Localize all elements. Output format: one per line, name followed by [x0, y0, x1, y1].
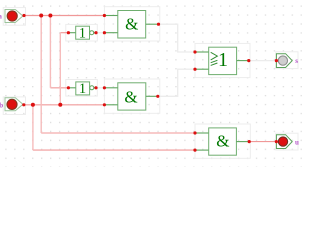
vertical wire branch B down at x=32.9 to AND U6: [32, 105, 34, 150]
svg-text:1: 1: [218, 49, 228, 71]
svg-text:1: 1: [79, 26, 86, 42]
vertical wire branch A down at x=41.2: [33, 16, 60, 151]
pin dot OR U5 in1: [193, 50, 196, 53]
wire OR U5 output to output S (value 0, gray): [249, 60, 277, 62]
bounding box AND U4: [104, 79, 159, 113]
junction on wire A at x=41.2: [39, 14, 43, 18]
pin dot AND U4 in1: [103, 86, 106, 89]
NOT gate U1: [68, 26, 96, 42]
bounding box input A: [3, 7, 298, 159]
wire branch B to AND U6 input2 (value 1, red): [33, 149, 195, 151]
wire branch to NOT U1 input (value 1, red): [60, 32, 68, 34]
pin dot AND U3 in1: [103, 14, 106, 17]
wire AND U4 output to OR U5 input2 (value 0, gray): [158, 69, 195, 96]
svg-text:&: &: [125, 14, 138, 33]
bounding box output U: [276, 133, 298, 150]
wire NOT U1 output to AND U3 input2 (value 0, gray): [96, 32, 104, 34]
pin dot AND U4 in2: [103, 103, 106, 106]
pin dot OR U5 out: [247, 59, 250, 62]
svg-text:1: 1: [79, 81, 86, 97]
pin dot NOT U2 out: [94, 86, 97, 89]
pin dot output S: [275, 59, 278, 62]
svg-text:b: b: [0, 102, 3, 110]
bounding box AND U6: [195, 124, 250, 158]
bounding box NOT U1: [66, 24, 98, 41]
svg-text:&: &: [216, 132, 229, 151]
wire NOT U2 output to AND U4 input1 (value 0, gray): [96, 87, 104, 89]
bounding box NOT U2: [66, 80, 98, 97]
bounding box OR U5: [195, 43, 250, 77]
vertical wire branch B up at x=60.3 to NOT U1: [59, 33, 61, 105]
wire input A to AND U3 input1 (value 1, red): [24, 16, 277, 151]
output U symbol: [276, 135, 292, 149]
input A symbol: [5, 10, 23, 23]
pin dot AND U6 out: [248, 140, 251, 143]
bounding box input B: [3, 97, 25, 115]
AND gate U4: [104, 83, 157, 110]
pin dot AND U6 in2: [193, 149, 196, 152]
wire AND U3 output to OR U5 input1 (value 0, gray): [96, 24, 276, 96]
bounding box output S: [276, 52, 298, 69]
junction on wire B at x=32.9: [31, 103, 35, 107]
AND gate U6: [195, 128, 249, 155]
pin dot NOT U1 in: [67, 31, 70, 34]
pin dot NOT U1 out: [94, 31, 97, 34]
svg-text:&: &: [124, 87, 137, 106]
pin dot input A: [22, 14, 25, 17]
junction on wire A at x=50.4: [48, 14, 52, 18]
svg-text:u: u: [295, 138, 299, 146]
wire branch A to AND U6 input1 (value 1, red): [41, 132, 195, 134]
AND gate U3: [104, 11, 158, 39]
pin dot AND U3 out: [157, 23, 160, 26]
wire branch to NOT U2 input (value 1, red): [50, 87, 68, 89]
pin dot AND U6 in1: [193, 131, 196, 134]
pin dot output U: [275, 140, 278, 143]
svg-text:s: s: [295, 57, 298, 65]
bounding box AND U3: [104, 7, 159, 41]
input B symbol: [5, 98, 23, 111]
NOT gate U2: [68, 81, 96, 97]
pin dot input B: [22, 103, 25, 106]
pin dot AND U3 in2: [103, 31, 106, 34]
wire AND U6 output to output U (value 1, red): [249, 141, 276, 143]
wire input B to AND U4 input2 (value 1, red): [24, 104, 105, 106]
pin dot AND U4 out: [156, 95, 159, 98]
vertical wire branch A down at x=50.4 to NOT U2: [49, 16, 51, 88]
OR gate U5: [195, 47, 249, 74]
pin dot NOT U2 in: [67, 86, 70, 89]
output S symbol: [276, 54, 292, 68]
junction on wire B at x=60.3: [58, 103, 62, 107]
pin dot OR U5 in2: [193, 68, 196, 71]
